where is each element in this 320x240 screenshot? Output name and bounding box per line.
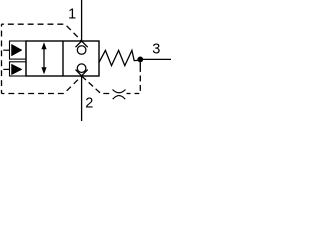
pilot box bottom <box>10 62 27 76</box>
check valve bottom ball <box>77 64 86 73</box>
check valve top seat <box>76 41 88 47</box>
pilot triangle bottom <box>12 64 23 75</box>
spring <box>99 50 138 65</box>
pilot dashed from port 2 to orifice <box>82 76 111 94</box>
pilot stub top <box>3 49 9 51</box>
pilot box top <box>10 41 27 59</box>
envelope left dashed side <box>1 24 3 93</box>
svg-text:3: 3 <box>152 42 160 58</box>
pilot dashed to orifice right <box>127 93 131 95</box>
port 3 line <box>137 58 171 60</box>
orifice <box>113 90 126 93</box>
pilot stub bottom <box>3 68 9 70</box>
check valve top ball <box>77 46 86 55</box>
check valve bottom seat <box>76 70 88 76</box>
cell divider <box>62 41 64 76</box>
svg-text:1: 1 <box>68 6 76 22</box>
envelope top dashed side <box>2 24 82 41</box>
port 1 line <box>81 0 83 41</box>
pilot triangle top <box>12 44 23 56</box>
double arrow <box>43 47 45 71</box>
valve body <box>26 41 99 76</box>
node 3 junction dot <box>137 57 143 63</box>
node 3 solid stub down <box>139 59 141 66</box>
pilot dashed vertical from node 3 <box>135 66 141 94</box>
envelope bottom dashed side <box>2 76 82 94</box>
port 2 line <box>81 76 83 121</box>
svg-text:2: 2 <box>85 95 93 111</box>
